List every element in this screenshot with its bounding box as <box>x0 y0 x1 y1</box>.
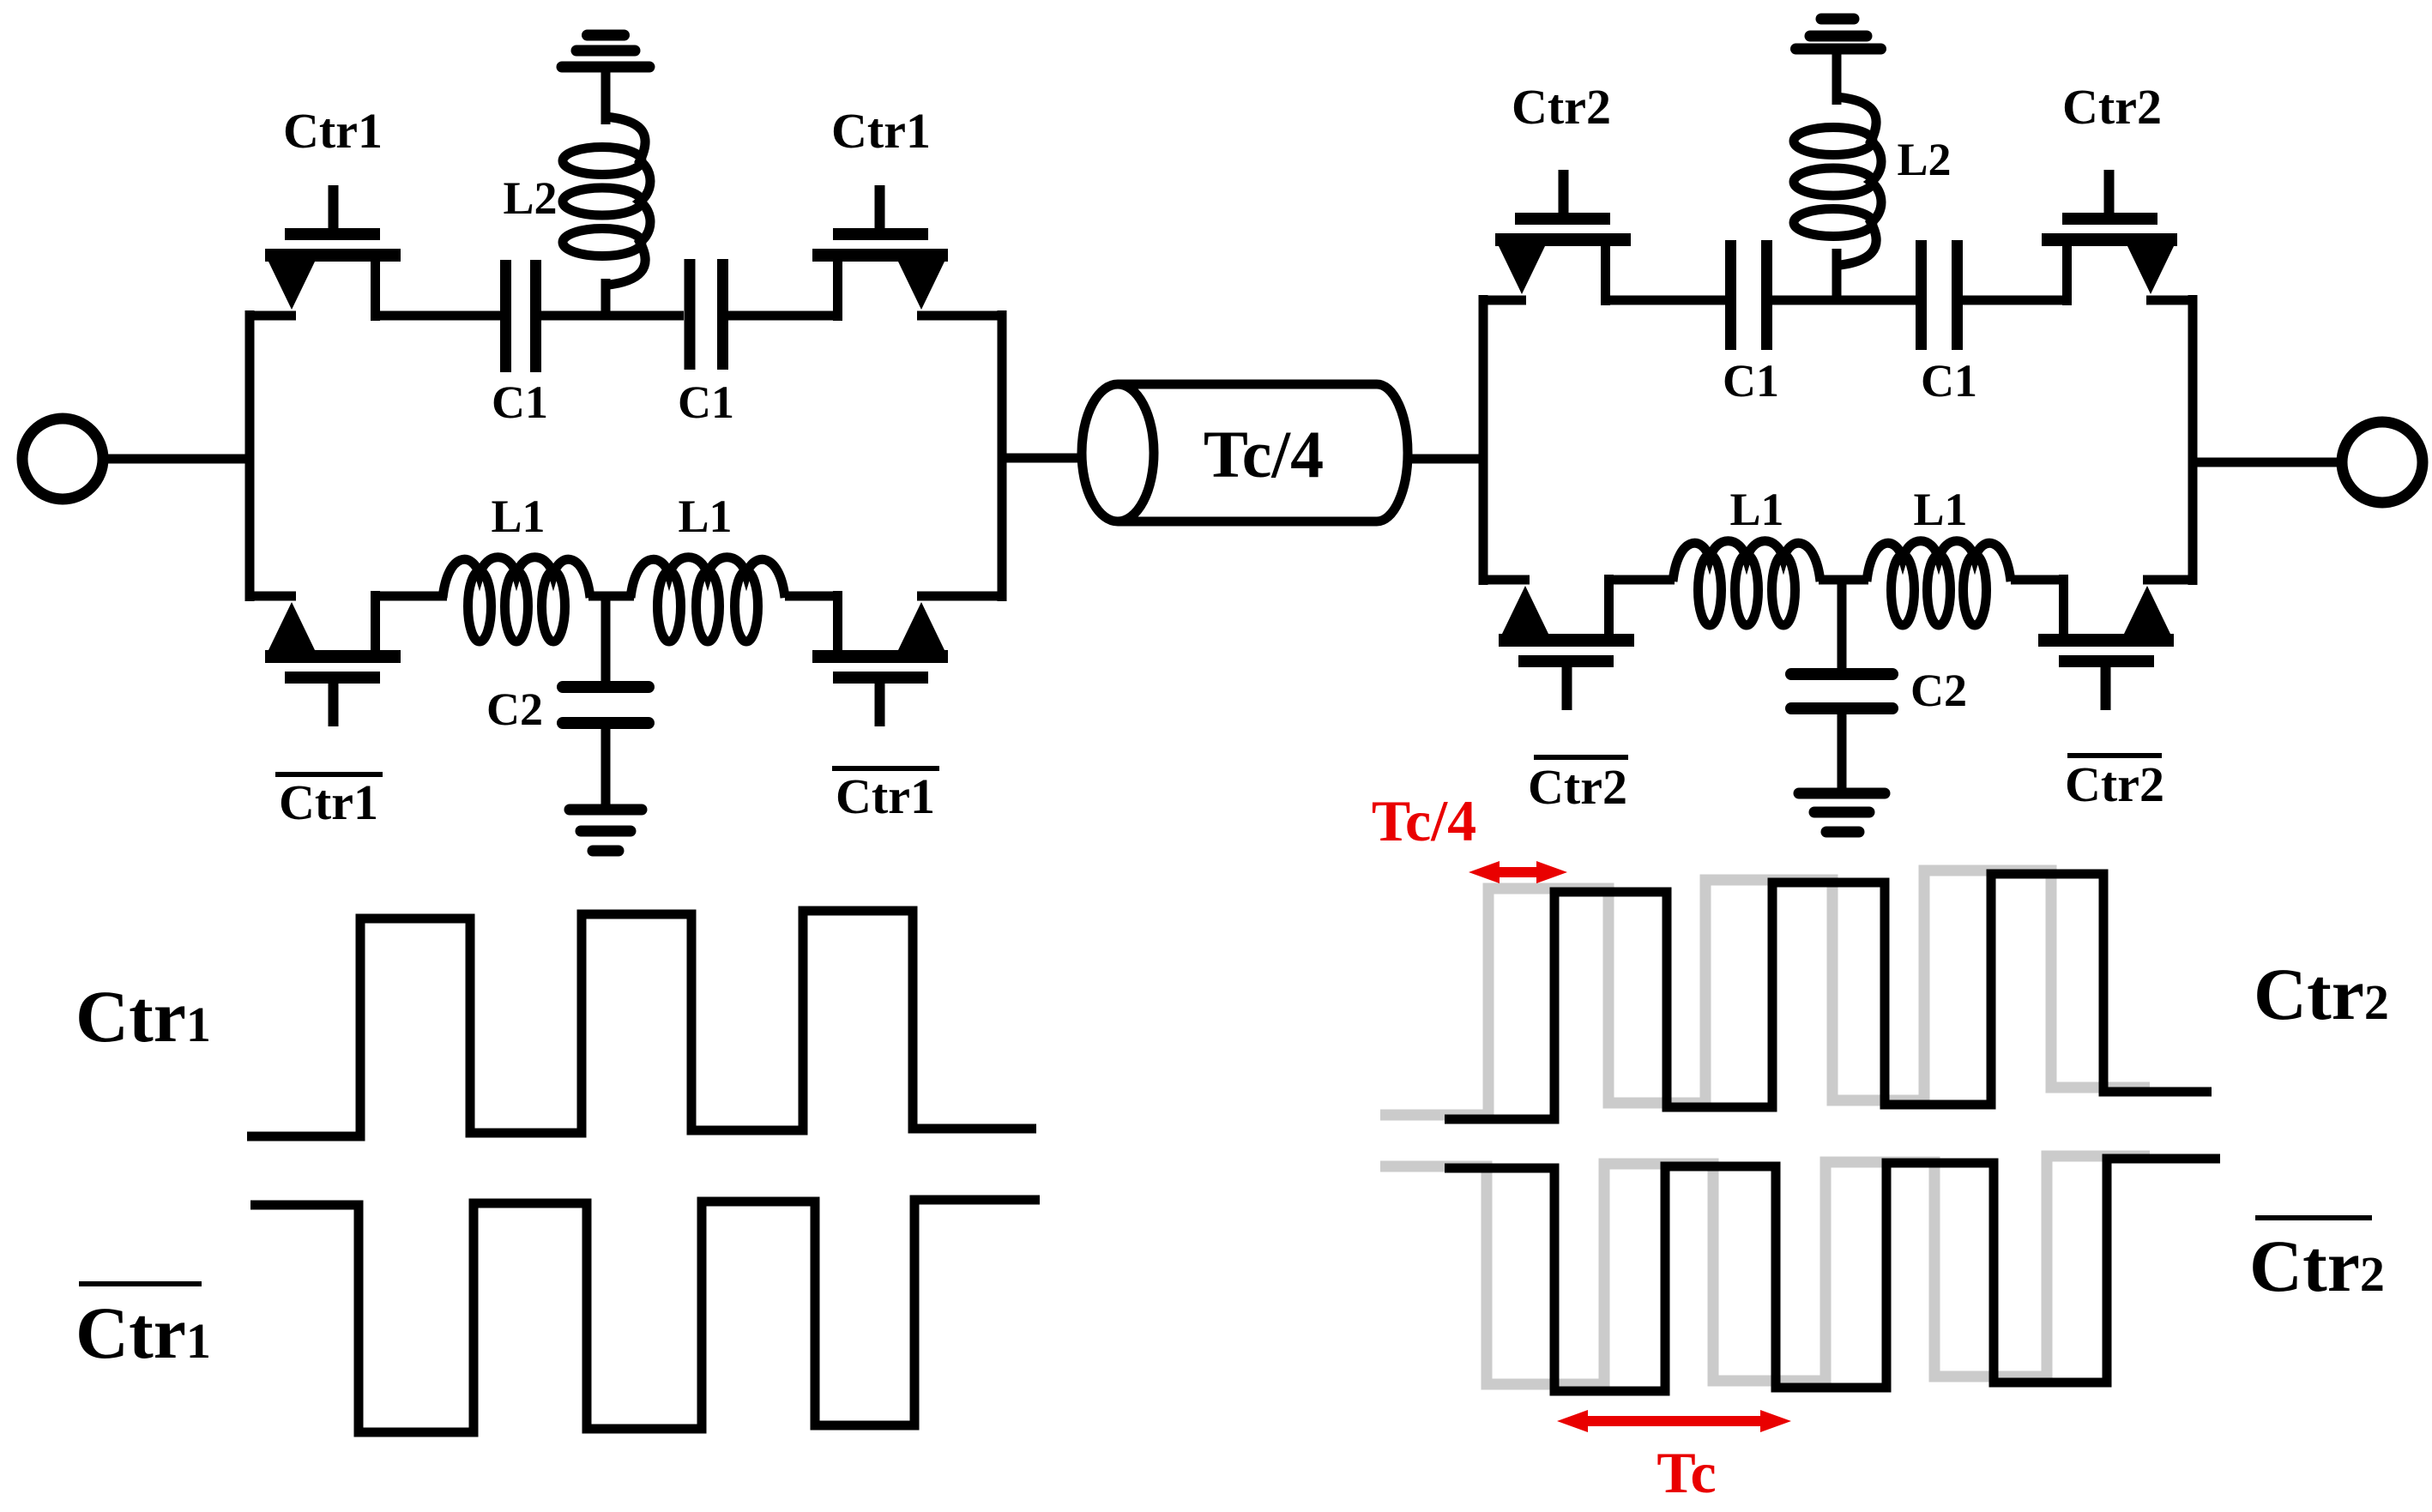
ground symbol bar3 (right) <box>1826 827 1859 838</box>
svg-text:C1: C1 <box>1723 355 1779 407</box>
wire bottom rail left segment <box>245 592 296 601</box>
transistor M4 (Ctr1bar bottom-right switch) <box>812 591 948 726</box>
wire top rail right circuit <box>1479 296 1526 305</box>
waveform Ctr2bar trace <box>1445 1159 2220 1391</box>
capacitor C1a left plate <box>500 260 511 372</box>
ground symbol bar3 <box>593 846 619 857</box>
input port circle <box>22 419 103 499</box>
wire C1d to M6 drain <box>1963 296 2067 305</box>
wire input to left rail <box>103 455 250 464</box>
transistor M6 (Ctr2 top-right switch) <box>2042 170 2177 305</box>
capacitor C2 bottom plate <box>563 717 649 729</box>
wire C1c to C1d via node C <box>1772 296 1916 305</box>
capacitor C1c left plate <box>1725 240 1736 350</box>
svg-text:Ctr1: Ctr1 <box>836 768 935 824</box>
wire M2 to right rail <box>917 311 1002 321</box>
svg-text:Tc/4: Tc/4 <box>1204 417 1324 491</box>
capacitor C1c right plate <box>1761 240 1772 350</box>
svg-text:Ctr2: Ctr2 <box>1528 759 1627 815</box>
transmission line Tc/4 body <box>1118 384 1408 521</box>
inductor L2 coil (right) <box>1794 97 1881 266</box>
inductor L1c coil <box>1673 541 1820 625</box>
supply symbol bar2 <box>576 45 635 57</box>
inductor L1b coil <box>631 557 785 642</box>
svg-text:Ctr2: Ctr2 <box>1512 79 1611 135</box>
transistor M8 (Ctr2bar bottom-right switch) <box>2038 575 2174 710</box>
arrow Tc (red) <box>1557 1410 1791 1432</box>
wire M7 drain to L1c <box>1609 575 1675 585</box>
capacitor C2 top plate (right) <box>1791 668 1892 680</box>
svg-text:Ctr1: Ctr1 <box>279 774 378 830</box>
inductor L2 coil <box>563 117 650 286</box>
svg-text:C1: C1 <box>492 376 548 428</box>
arrow Tc/4 (red) <box>1469 861 1567 883</box>
capacitor C1b left plate <box>685 259 696 370</box>
transistor M7 (Ctr2bar bottom-left switch) <box>1499 575 1634 710</box>
wire L2 down to node A <box>601 279 611 316</box>
wire L1c to L1d via node D <box>1819 575 1868 585</box>
label Ctr2bar overline (M8) <box>2067 753 2162 758</box>
wire M8 to right rail <box>2143 575 2193 585</box>
ground symbol bar2 (right) <box>1814 807 1869 818</box>
waveform Ctr2 reference trace (gray) <box>1380 870 2150 1115</box>
inductor L1a coil <box>443 557 590 642</box>
label Ctr1bar overline (M3) <box>275 772 383 777</box>
inductor L1d coil <box>1867 541 2011 625</box>
wire M6 to right rail <box>2146 296 2193 305</box>
svg-text:C2: C2 <box>1910 665 1967 716</box>
wire bottom rail right circuit <box>1479 575 1530 585</box>
wire C2 to ground <box>601 729 611 806</box>
right rail (left circuit) <box>998 310 1007 601</box>
svg-text:Ctr2: Ctr2 <box>2249 1225 2385 1307</box>
output port circle <box>2342 422 2423 503</box>
capacitor C1b right plate <box>717 259 728 370</box>
wire C2 to ground (right) <box>1838 714 1847 790</box>
svg-text:C1: C1 <box>1921 355 1977 407</box>
supply symbol bar1 <box>562 62 649 73</box>
transistor M3 (Ctr1bar bottom-left switch) <box>265 591 401 726</box>
svg-text:L1: L1 <box>678 491 732 542</box>
svg-text:L2: L2 <box>1897 134 1951 185</box>
label Ctr2bar overline (M7) <box>1534 755 1628 760</box>
capacitor C1d left plate <box>1916 240 1927 350</box>
ground symbol bar2 <box>581 826 631 837</box>
svg-text:C2: C2 <box>486 684 543 735</box>
label Ctr1bar waveform overline <box>79 1281 202 1286</box>
svg-text:Ctr2: Ctr2 <box>2065 756 2164 812</box>
transistor M1 (Ctr1 top-left switch) <box>265 185 401 321</box>
wire top rail left segment <box>245 311 296 321</box>
supply symbol bar2 (right) <box>1810 31 1867 42</box>
wire M5 drain to C1c <box>1606 296 1727 305</box>
supply symbol bar3 <box>588 30 625 41</box>
svg-text:Ctr1: Ctr1 <box>75 1292 211 1374</box>
wire L1b to M4 <box>785 592 838 601</box>
capacitor C1d right plate <box>1952 240 1963 350</box>
capacitor C1a right plate <box>530 260 541 372</box>
svg-text:Tc/4: Tc/4 <box>1372 788 1476 853</box>
wire C1b to M2 drain <box>728 311 838 321</box>
waveform Ctr1 trace <box>247 911 1036 1136</box>
svg-text:Tc: Tc <box>1657 1440 1716 1505</box>
wire L2 top to supply <box>601 72 611 124</box>
svg-text:L1: L1 <box>1913 484 1967 535</box>
wire L2 top to supply (right) <box>1832 54 1842 105</box>
wire mid output to Tc/4 <box>1002 454 1083 463</box>
svg-text:C1: C1 <box>678 376 734 428</box>
wire M3 drain to L1a <box>376 592 448 601</box>
svg-text:L1: L1 <box>491 491 545 542</box>
label Ctr2bar waveform overline <box>2255 1215 2372 1220</box>
svg-text:Ctr1: Ctr1 <box>283 103 383 159</box>
capacitor C2 top plate <box>563 681 649 693</box>
wire M1 drain to C1a <box>376 311 502 321</box>
svg-text:L2: L2 <box>503 172 557 224</box>
transmission line Tc/4 left ellipse <box>1082 384 1154 521</box>
supply symbol bar3 (right) <box>1821 14 1854 25</box>
svg-text:Ctr2: Ctr2 <box>2062 79 2162 135</box>
right rail (right circuit) <box>2188 295 2198 585</box>
left rail (left circuit) <box>245 310 255 601</box>
transistor M2 (Ctr1 top-right switch) <box>812 185 948 321</box>
left rail (right circuit) <box>1479 295 1488 585</box>
wire L1d to M8 <box>2011 575 2067 585</box>
wire mid output right circuit <box>2193 458 2342 467</box>
wire Tc/4 to right circuit <box>1408 455 1483 464</box>
capacitor C2 bottom plate (right) <box>1791 702 1892 714</box>
svg-text:L1: L1 <box>1729 484 1783 535</box>
label Ctr1bar overline (M4) <box>832 766 939 771</box>
svg-text:Ctr2: Ctr2 <box>2254 953 2389 1035</box>
wire L2 down to node C <box>1832 249 1842 300</box>
ground symbol bar1 <box>570 804 642 816</box>
supply symbol bar1 (right) <box>1796 44 1881 55</box>
wire M4 to right rail <box>917 592 1002 601</box>
transistor M5 (Ctr2 top-left switch) <box>1495 170 1631 305</box>
svg-text:Ctr1: Ctr1 <box>75 975 211 1057</box>
waveform Ctr1bar trace <box>250 1200 1040 1432</box>
svg-text:Ctr1: Ctr1 <box>831 103 931 159</box>
wire node D down to C2 (right) <box>1838 580 1847 671</box>
ground symbol bar1 (right) <box>1799 788 1885 799</box>
waveform Ctr2bar reference trace (gray) <box>1380 1156 2150 1384</box>
waveform Ctr2 trace <box>1445 874 2212 1119</box>
wire node B down to C2 <box>601 596 611 684</box>
wire L1a to L1b via node B <box>588 592 634 601</box>
wire C1a to C1b via node A <box>541 311 684 321</box>
